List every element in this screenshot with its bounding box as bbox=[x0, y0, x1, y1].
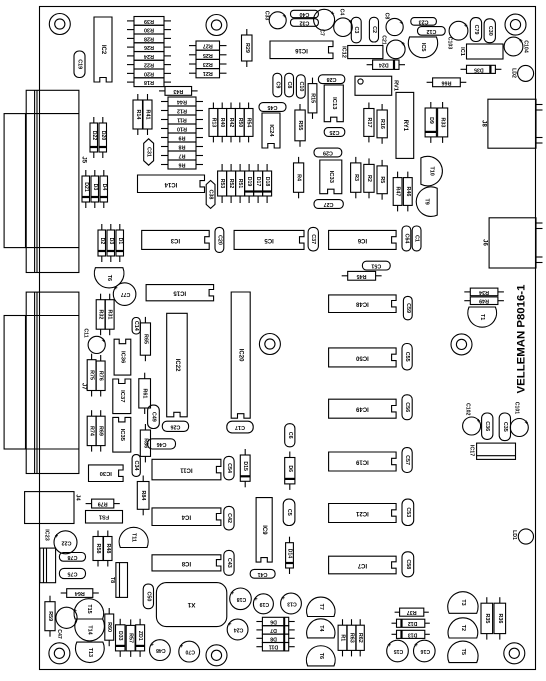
svg-text:+: + bbox=[401, 40, 405, 46]
svg-text:R8: R8 bbox=[179, 144, 186, 150]
svg-text:IC17: IC17 bbox=[469, 445, 475, 456]
svg-text:R55: R55 bbox=[297, 120, 303, 130]
svg-text:C41: C41 bbox=[258, 571, 268, 577]
svg-text:ZD1: ZD1 bbox=[137, 631, 143, 641]
svg-text:IC14: IC14 bbox=[164, 181, 177, 187]
svg-text:C10: C10 bbox=[298, 82, 304, 92]
svg-text:C1: C1 bbox=[414, 235, 420, 242]
svg-text:R65: R65 bbox=[142, 334, 148, 344]
svg-text:R10: R10 bbox=[177, 126, 187, 132]
svg-text:C53: C53 bbox=[405, 507, 411, 517]
svg-text:R52: R52 bbox=[228, 179, 234, 189]
svg-text:C54: C54 bbox=[226, 463, 232, 473]
svg-text:LD2: LD2 bbox=[511, 68, 517, 78]
svg-text:C37: C37 bbox=[310, 234, 316, 244]
svg-text:D1: D1 bbox=[117, 238, 123, 245]
svg-text:R35: R35 bbox=[484, 613, 490, 623]
svg-text:+: + bbox=[54, 531, 58, 537]
svg-text:C4: C4 bbox=[338, 9, 344, 16]
svg-text:R7: R7 bbox=[179, 153, 186, 159]
svg-text:IC15: IC15 bbox=[173, 290, 186, 296]
svg-text:R5: R5 bbox=[379, 176, 385, 183]
svg-text:C24: C24 bbox=[234, 627, 244, 633]
svg-text:IC9: IC9 bbox=[261, 525, 267, 535]
svg-text:R40: R40 bbox=[219, 118, 225, 128]
svg-text:J8: J8 bbox=[481, 120, 487, 127]
svg-text:R4: R4 bbox=[296, 174, 302, 181]
svg-text:C102: C102 bbox=[465, 403, 471, 416]
svg-text:C15: C15 bbox=[394, 648, 404, 654]
svg-text:R63: R63 bbox=[349, 633, 355, 643]
svg-text:D2: D2 bbox=[99, 238, 105, 245]
svg-text:D13: D13 bbox=[408, 631, 418, 637]
svg-text:D33: D33 bbox=[117, 631, 123, 641]
svg-text:C31: C31 bbox=[146, 147, 152, 157]
svg-text:R44: R44 bbox=[177, 99, 187, 105]
svg-text:R62: R62 bbox=[357, 633, 363, 643]
svg-text:C33: C33 bbox=[264, 11, 270, 21]
svg-text:C8: C8 bbox=[384, 13, 390, 20]
svg-text:C21: C21 bbox=[380, 35, 386, 45]
svg-text:C3: C3 bbox=[353, 27, 359, 34]
svg-text:T3: T3 bbox=[460, 599, 466, 605]
svg-text:R33: R33 bbox=[440, 118, 446, 128]
svg-text:C104: C104 bbox=[523, 40, 529, 53]
svg-text:J4: J4 bbox=[75, 494, 81, 501]
svg-text:IC8: IC8 bbox=[181, 560, 191, 566]
svg-text:D22: D22 bbox=[91, 131, 97, 141]
svg-text:R26: R26 bbox=[144, 44, 154, 50]
svg-text:D15: D15 bbox=[242, 461, 248, 471]
svg-text:R48: R48 bbox=[105, 544, 111, 554]
svg-text:R76: R76 bbox=[98, 371, 104, 381]
svg-text:X1: X1 bbox=[187, 601, 195, 608]
svg-text:J6: J6 bbox=[482, 239, 488, 246]
svg-text:IC2: IC2 bbox=[100, 45, 106, 55]
svg-text:R34: R34 bbox=[479, 289, 489, 295]
svg-text:R54: R54 bbox=[246, 118, 252, 128]
svg-text:D11: D11 bbox=[269, 644, 278, 650]
svg-text:+: + bbox=[101, 336, 105, 342]
svg-text:R22: R22 bbox=[144, 62, 154, 68]
svg-text:C12: C12 bbox=[426, 28, 436, 34]
svg-text:IC37: IC37 bbox=[119, 390, 125, 402]
svg-text:VELLEMAN P8016-1: VELLEMAN P8016-1 bbox=[516, 284, 528, 394]
svg-text:R39: R39 bbox=[144, 18, 154, 24]
svg-text:C79: C79 bbox=[473, 25, 479, 35]
svg-text:C17: C17 bbox=[235, 424, 245, 430]
svg-text:R75: R75 bbox=[89, 370, 95, 380]
svg-text:T13: T13 bbox=[87, 648, 93, 657]
svg-text:C30: C30 bbox=[487, 26, 493, 36]
svg-text:R31: R31 bbox=[107, 309, 113, 319]
svg-text:IC49: IC49 bbox=[355, 406, 368, 412]
svg-text:C45: C45 bbox=[268, 104, 278, 110]
svg-text:IC19: IC19 bbox=[355, 459, 368, 465]
svg-text:D3: D3 bbox=[108, 238, 114, 245]
svg-text:R42: R42 bbox=[228, 118, 234, 128]
svg-text:IC4: IC4 bbox=[181, 514, 191, 520]
svg-text:D7: D7 bbox=[270, 627, 277, 633]
svg-text:IC50: IC50 bbox=[355, 354, 368, 360]
svg-text:FS1: FS1 bbox=[99, 514, 109, 520]
svg-text:C19: C19 bbox=[260, 601, 270, 607]
svg-text:D24: D24 bbox=[379, 62, 389, 68]
svg-text:D18: D18 bbox=[264, 177, 270, 187]
svg-text:T2: T2 bbox=[460, 625, 466, 631]
svg-text:C22: C22 bbox=[62, 539, 72, 545]
svg-text:IC12: IC12 bbox=[341, 46, 347, 58]
svg-text:C34: C34 bbox=[133, 461, 139, 471]
svg-text:R79: R79 bbox=[98, 501, 108, 507]
svg-text:IC22: IC22 bbox=[174, 359, 180, 372]
svg-text:T4: T4 bbox=[318, 625, 324, 631]
svg-text:+: + bbox=[254, 594, 258, 600]
svg-text:+: + bbox=[464, 21, 468, 27]
svg-text:C42: C42 bbox=[226, 513, 232, 523]
svg-text:C9: C9 bbox=[274, 82, 280, 89]
svg-text:C36: C36 bbox=[484, 421, 490, 431]
svg-text:D6: D6 bbox=[287, 465, 293, 472]
svg-text:IC48: IC48 bbox=[355, 301, 368, 307]
svg-text:C56: C56 bbox=[404, 402, 410, 412]
svg-text:IC23: IC23 bbox=[43, 529, 49, 540]
svg-text:+: + bbox=[387, 641, 391, 647]
svg-text:IC24: IC24 bbox=[268, 124, 274, 137]
svg-text:R58: R58 bbox=[95, 544, 101, 554]
svg-text:C70: C70 bbox=[185, 649, 195, 655]
svg-text:+: + bbox=[230, 589, 234, 595]
svg-text:T9: T9 bbox=[424, 198, 430, 204]
svg-text:R45: R45 bbox=[357, 273, 367, 279]
svg-text:IC33: IC33 bbox=[328, 171, 334, 184]
svg-text:C6: C6 bbox=[287, 432, 293, 439]
svg-text:C8: C8 bbox=[286, 82, 292, 89]
svg-text:C38: C38 bbox=[208, 189, 214, 199]
svg-text:+: + bbox=[519, 37, 523, 43]
svg-text:J5: J5 bbox=[80, 156, 86, 163]
svg-text:+: + bbox=[114, 283, 118, 289]
svg-text:+: + bbox=[524, 418, 528, 424]
svg-text:R51: R51 bbox=[237, 179, 243, 189]
svg-text:D4: D4 bbox=[101, 184, 107, 191]
svg-text:IC3: IC3 bbox=[170, 237, 180, 243]
svg-text:R11: R11 bbox=[177, 117, 187, 123]
svg-text:R16: R16 bbox=[379, 119, 385, 129]
svg-text:R50: R50 bbox=[237, 118, 243, 128]
svg-text:IC35: IC35 bbox=[119, 429, 125, 442]
svg-text:C32: C32 bbox=[299, 20, 309, 26]
svg-text:C40: C40 bbox=[299, 11, 309, 17]
svg-text:IC20: IC20 bbox=[238, 349, 244, 362]
svg-text:R9: R9 bbox=[179, 135, 186, 141]
svg-text:R15: R15 bbox=[310, 93, 316, 103]
svg-text:R43: R43 bbox=[173, 88, 183, 94]
svg-text:R20: R20 bbox=[144, 70, 154, 76]
svg-text:R57: R57 bbox=[128, 633, 134, 643]
svg-text:R2: R2 bbox=[366, 175, 372, 182]
svg-text:+: + bbox=[150, 640, 154, 646]
svg-text:T6: T6 bbox=[318, 653, 324, 659]
svg-text:R12: R12 bbox=[177, 108, 187, 114]
svg-text:R1: R1 bbox=[340, 634, 346, 641]
svg-text:D17: D17 bbox=[255, 177, 261, 187]
svg-text:C28: C28 bbox=[327, 76, 337, 82]
svg-text:R14: R14 bbox=[135, 110, 141, 120]
svg-text:R60: R60 bbox=[106, 622, 112, 632]
svg-text:R61: R61 bbox=[142, 388, 148, 398]
svg-text:C14: C14 bbox=[133, 321, 139, 331]
svg-text:C51: C51 bbox=[371, 263, 381, 269]
svg-text:T14: T14 bbox=[87, 625, 93, 634]
svg-text:R37: R37 bbox=[407, 609, 417, 615]
svg-text:C59: C59 bbox=[405, 303, 411, 313]
svg-text:R27: R27 bbox=[203, 43, 213, 49]
svg-text:C7: C7 bbox=[319, 29, 325, 36]
svg-text:R46: R46 bbox=[405, 187, 411, 197]
svg-text:C13: C13 bbox=[287, 601, 297, 607]
svg-text:R36: R36 bbox=[497, 613, 503, 623]
svg-text:R21: R21 bbox=[203, 70, 213, 76]
svg-text:IC13: IC13 bbox=[331, 97, 337, 110]
svg-text:R28: R28 bbox=[144, 35, 154, 41]
svg-text:C49: C49 bbox=[150, 412, 156, 422]
svg-text:C77: C77 bbox=[121, 291, 131, 297]
svg-text:IC21: IC21 bbox=[355, 510, 368, 516]
svg-text:+: + bbox=[281, 594, 285, 600]
svg-text:IC5: IC5 bbox=[420, 43, 426, 52]
svg-text:C75: C75 bbox=[68, 571, 78, 577]
svg-text:R47: R47 bbox=[395, 187, 401, 197]
svg-text:R23: R23 bbox=[203, 61, 213, 67]
svg-text:R30: R30 bbox=[144, 27, 154, 33]
svg-text:IC16: IC16 bbox=[295, 47, 308, 53]
svg-text:C55: C55 bbox=[404, 352, 410, 362]
svg-text:C103: C103 bbox=[447, 37, 453, 50]
svg-text:D21: D21 bbox=[83, 182, 89, 192]
svg-text:C27: C27 bbox=[324, 201, 334, 207]
svg-text:+: + bbox=[179, 642, 183, 648]
svg-text:R84: R84 bbox=[140, 490, 146, 500]
svg-text:T11: T11 bbox=[131, 533, 137, 542]
svg-text:C23: C23 bbox=[419, 18, 429, 24]
svg-text:C18: C18 bbox=[237, 596, 247, 602]
svg-text:D19: D19 bbox=[246, 177, 252, 187]
svg-text:RV1: RV1 bbox=[393, 80, 399, 91]
svg-text:C78: C78 bbox=[68, 554, 78, 560]
svg-text:C16: C16 bbox=[420, 648, 430, 654]
svg-text:R32: R32 bbox=[98, 309, 104, 319]
svg-text:D35: D35 bbox=[474, 66, 484, 72]
svg-text:C25: C25 bbox=[330, 129, 340, 135]
svg-text:T6: T6 bbox=[106, 275, 112, 281]
svg-text:C47: C47 bbox=[56, 629, 62, 639]
svg-text:C5: C5 bbox=[286, 509, 292, 516]
svg-text:+: + bbox=[476, 417, 480, 423]
svg-text:C46: C46 bbox=[157, 441, 167, 447]
svg-text:R59: R59 bbox=[47, 611, 53, 621]
svg-text:C20: C20 bbox=[216, 235, 222, 245]
svg-text:D12: D12 bbox=[408, 620, 418, 626]
svg-text:J7: J7 bbox=[80, 383, 86, 390]
svg-text:R69: R69 bbox=[98, 426, 104, 436]
svg-text:R29: R29 bbox=[244, 43, 250, 53]
svg-text:R6: R6 bbox=[179, 162, 186, 168]
svg-text:D6: D6 bbox=[270, 619, 277, 625]
svg-text:D8: D8 bbox=[270, 635, 277, 641]
svg-text:T1: T1 bbox=[479, 314, 485, 320]
svg-text:C43: C43 bbox=[226, 558, 232, 568]
svg-text:IC30: IC30 bbox=[100, 470, 112, 476]
svg-text:IC6: IC6 bbox=[357, 237, 367, 243]
svg-text:+: + bbox=[330, 9, 334, 15]
svg-text:C58: C58 bbox=[405, 559, 411, 569]
svg-text:IC7: IC7 bbox=[357, 562, 367, 568]
svg-text:LD1: LD1 bbox=[511, 530, 517, 540]
svg-text:D3: D3 bbox=[92, 184, 98, 191]
svg-text:D9: D9 bbox=[428, 117, 434, 124]
svg-text:R66: R66 bbox=[442, 79, 452, 85]
svg-text:T8: T8 bbox=[109, 577, 115, 583]
svg-text:R3: R3 bbox=[353, 174, 359, 181]
svg-text:+: + bbox=[414, 641, 418, 647]
svg-text:R53: R53 bbox=[219, 179, 225, 189]
svg-text:IC36: IC36 bbox=[120, 351, 126, 364]
svg-text:R13: R13 bbox=[210, 118, 216, 128]
svg-text:C57: C57 bbox=[404, 455, 410, 465]
svg-text:T5: T5 bbox=[460, 649, 466, 655]
svg-text:RY1: RY1 bbox=[402, 120, 408, 132]
svg-text:T10: T10 bbox=[429, 166, 435, 175]
svg-text:C11: C11 bbox=[83, 328, 89, 337]
svg-text:R25: R25 bbox=[203, 52, 213, 58]
svg-text:IC11: IC11 bbox=[180, 467, 193, 473]
svg-text:C50: C50 bbox=[145, 591, 151, 601]
svg-text:IC1: IC1 bbox=[459, 47, 465, 56]
svg-text:R18: R18 bbox=[144, 79, 154, 85]
svg-text:C26: C26 bbox=[170, 423, 180, 429]
svg-text:C48: C48 bbox=[156, 647, 166, 653]
svg-text:C19: C19 bbox=[77, 59, 83, 69]
svg-text:R41: R41 bbox=[145, 110, 151, 120]
svg-text:C29: C29 bbox=[323, 150, 333, 156]
svg-text:D20: D20 bbox=[100, 131, 106, 141]
svg-text:IC5: IC5 bbox=[264, 237, 274, 243]
svg-text:C2: C2 bbox=[371, 26, 377, 33]
svg-text:R64: R64 bbox=[75, 590, 85, 596]
svg-text:T7: T7 bbox=[318, 604, 324, 610]
svg-text:D14: D14 bbox=[287, 549, 293, 559]
svg-text:R24: R24 bbox=[144, 53, 154, 59]
svg-text:R17: R17 bbox=[366, 118, 372, 128]
svg-text:R74: R74 bbox=[89, 426, 95, 436]
svg-text:+: + bbox=[282, 11, 286, 17]
svg-text:C101: C101 bbox=[514, 402, 520, 415]
svg-text:R49: R49 bbox=[479, 298, 489, 304]
svg-text:+: + bbox=[399, 18, 403, 24]
svg-text:C35: C35 bbox=[502, 422, 508, 432]
svg-text:+: + bbox=[227, 620, 231, 626]
svg-text:C64: C64 bbox=[403, 233, 409, 243]
svg-text:T15: T15 bbox=[86, 604, 92, 613]
